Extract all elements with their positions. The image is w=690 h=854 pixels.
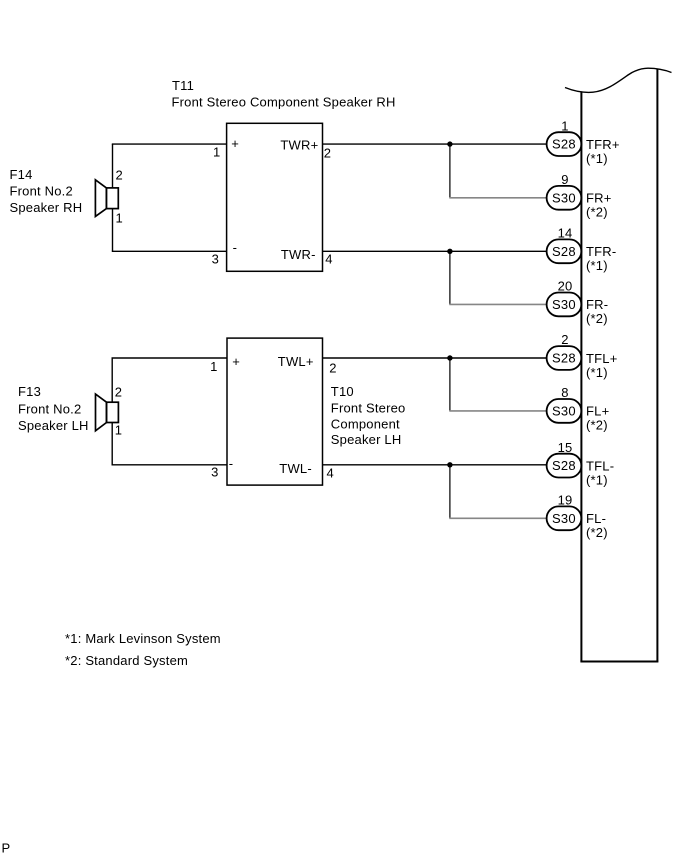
- svg-text:*1: Mark Levinson System: *1: Mark Levinson System: [65, 631, 221, 646]
- pin number 2: [561, 332, 568, 347]
- svg-text:Front Stereo: Front Stereo: [331, 400, 406, 415]
- svg-text:-: -: [229, 456, 234, 471]
- wire harness right edge: [656, 69, 658, 662]
- svg-text:(*1): (*1): [586, 258, 608, 273]
- svg-text:(*2): (*2): [586, 418, 608, 433]
- junction node TWR-: [447, 249, 452, 254]
- net label FL+ (*2): [586, 404, 609, 433]
- svg-text:Front No.2: Front No.2: [10, 184, 73, 199]
- connector S30 pin 19: [547, 506, 582, 530]
- svg-text:9: 9: [561, 172, 568, 187]
- svg-text:S28: S28: [552, 458, 576, 473]
- wire gray to S30 pin8: [449, 410, 547, 412]
- svg-text:Speaker LH: Speaker LH: [18, 418, 89, 433]
- T10 pin 1: [210, 359, 217, 374]
- wire F14 to T11 pin1: [112, 143, 227, 145]
- connector S30 pin 20: [547, 293, 582, 317]
- speaker F14: [95, 180, 118, 217]
- svg-text:Speaker LH: Speaker LH: [331, 432, 402, 447]
- svg-text:FL-: FL-: [586, 511, 606, 526]
- svg-text:1: 1: [213, 144, 220, 159]
- svg-text:P: P: [2, 840, 11, 854]
- svg-text:4: 4: [325, 252, 332, 267]
- pin number 1: [561, 118, 568, 133]
- svg-text:-: -: [233, 240, 238, 255]
- svg-text:1: 1: [115, 423, 122, 438]
- svg-text:(*2): (*2): [586, 311, 608, 326]
- pin number 14: [558, 226, 573, 241]
- T10 TWL- terminal label: [279, 461, 312, 476]
- svg-text:S30: S30: [552, 297, 576, 312]
- speaker F13 pin 1: [115, 423, 122, 438]
- svg-text:(*2): (*2): [586, 525, 608, 540]
- T11 minus terminal: [233, 240, 238, 255]
- svg-text:Component: Component: [331, 417, 400, 432]
- svg-text:Front Stereo Component Speaker: Front Stereo Component Speaker RH: [172, 94, 396, 109]
- svg-text:1: 1: [561, 118, 568, 133]
- T10 TWL+ terminal label: [278, 354, 314, 369]
- pin number 20: [558, 279, 573, 294]
- svg-text:15: 15: [558, 440, 573, 455]
- wire gray to S30 pin9: [449, 197, 547, 199]
- svg-text:(*2): (*2): [586, 205, 608, 220]
- transformer box T11: [227, 123, 323, 271]
- svg-text:FR-: FR-: [586, 297, 608, 312]
- svg-text:Speaker RH: Speaker RH: [10, 200, 83, 215]
- footnote *1: [65, 631, 221, 646]
- transformer box T10: [227, 338, 323, 485]
- wire harness left edge: [580, 91, 582, 661]
- junction node TWR+: [447, 141, 452, 146]
- wire F13 to T10 pin3: [112, 464, 228, 466]
- svg-text:14: 14: [558, 226, 573, 241]
- svg-text:+: +: [231, 136, 239, 151]
- svg-text:3: 3: [212, 251, 219, 266]
- net label TFR+ (*1): [586, 137, 620, 166]
- svg-text:+: +: [232, 354, 240, 369]
- label F13: [18, 384, 89, 433]
- wire T10 pin2 to S28 pin2: [323, 357, 548, 359]
- svg-text:2: 2: [561, 332, 568, 347]
- svg-text:(*1): (*1): [586, 472, 608, 487]
- net label FR- (*2): [586, 297, 608, 326]
- speaker F13 pin 2: [115, 384, 122, 399]
- wire F14 pin1 vertical: [112, 209, 114, 252]
- svg-text:8: 8: [561, 385, 568, 400]
- wire junction drop TWL-: [449, 465, 451, 519]
- svg-text:TWL+: TWL+: [278, 354, 314, 369]
- svg-text:T11: T11: [172, 78, 194, 93]
- speaker F14 pin 2: [116, 167, 123, 182]
- svg-text:S28: S28: [552, 351, 576, 366]
- svg-text:TWR-: TWR-: [281, 247, 316, 262]
- pin number 8: [561, 385, 568, 400]
- net label FL- (*2): [586, 511, 608, 540]
- junction node TWL-: [447, 462, 452, 467]
- net label TFL- (*1): [586, 458, 614, 487]
- svg-text:Front No.2: Front No.2: [18, 401, 81, 416]
- connector S30 pin 9: [547, 186, 582, 210]
- svg-text:(*1): (*1): [586, 365, 608, 380]
- T10 pin 4: [327, 466, 334, 481]
- svg-text:FR+: FR+: [586, 191, 612, 206]
- svg-text:S30: S30: [552, 190, 576, 205]
- pin number 19: [558, 493, 573, 508]
- label T11 header: [172, 78, 396, 109]
- svg-text:TWR+: TWR+: [280, 137, 318, 152]
- net label TFL+ (*1): [586, 351, 618, 380]
- net label FR+ (*2): [586, 191, 612, 220]
- svg-text:2: 2: [116, 167, 123, 182]
- speaker F14 pin 1: [116, 211, 123, 226]
- svg-text:S28: S28: [552, 244, 576, 259]
- svg-text:2: 2: [324, 145, 331, 160]
- connector S28 pin 15: [547, 454, 582, 478]
- svg-text:*2: Standard System: *2: Standard System: [65, 653, 188, 668]
- wire F13 pin2 vertical: [111, 358, 113, 402]
- svg-text:4: 4: [327, 466, 334, 481]
- svg-text:TFL-: TFL-: [586, 458, 614, 473]
- svg-text:2: 2: [115, 384, 122, 399]
- connector S30 pin 8: [547, 399, 582, 423]
- svg-text:TFR+: TFR+: [586, 137, 620, 152]
- svg-text:T10: T10: [331, 384, 354, 399]
- T10 minus terminal: [229, 456, 234, 471]
- T11 plus terminal: [231, 136, 239, 151]
- connector S28 pin 2: [547, 346, 582, 370]
- T10 plus terminal: [232, 354, 240, 369]
- svg-text:FL+: FL+: [586, 404, 609, 419]
- page letter P: [2, 840, 11, 854]
- wire F13 pin1 vertical: [111, 423, 113, 465]
- svg-text:19: 19: [558, 493, 573, 508]
- pin number 15: [558, 440, 573, 455]
- speaker F13: [96, 394, 119, 431]
- svg-text:(*1): (*1): [586, 151, 608, 166]
- wire F14 to T11 pin3: [112, 250, 227, 252]
- connector S28 pin 1: [547, 132, 582, 156]
- wire gray to S30 pin20: [449, 303, 547, 305]
- svg-text:1: 1: [116, 211, 123, 226]
- svg-text:F14: F14: [10, 167, 33, 182]
- svg-text:3: 3: [211, 464, 218, 479]
- net label TFR- (*1): [586, 244, 616, 273]
- wire harness bottom edge: [580, 661, 658, 663]
- svg-text:S30: S30: [552, 403, 576, 418]
- svg-text:TWL-: TWL-: [279, 461, 312, 476]
- T11 pin 2: [324, 145, 331, 160]
- T11 pin 3: [212, 251, 219, 266]
- junction node TWL+: [447, 355, 452, 360]
- footnote *2: [65, 653, 188, 668]
- connector S28 pin 14: [547, 239, 582, 263]
- wire gray to S30 pin19: [449, 517, 547, 519]
- T11 pin 1: [213, 144, 220, 159]
- svg-text:F13: F13: [18, 384, 41, 399]
- wire T10 pin4 to S28 pin15: [323, 464, 548, 466]
- wire T11 pin4 to S28 pin14: [323, 250, 548, 252]
- svg-text:S28: S28: [552, 137, 576, 152]
- pin number 9: [561, 172, 568, 187]
- svg-text:1: 1: [210, 359, 217, 374]
- wire F14 pin2 vertical: [112, 144, 114, 188]
- svg-text:TFL+: TFL+: [586, 351, 618, 366]
- svg-text:S30: S30: [552, 511, 576, 526]
- wire junction drop TWL+: [449, 358, 451, 411]
- label T10 header: [331, 384, 406, 447]
- wire F13 to T10 pin1: [112, 357, 228, 359]
- harness break wave: [565, 68, 672, 92]
- wire T11 pin2 to S28 pin1: [323, 143, 548, 145]
- T11 TWR- terminal label: [281, 247, 316, 262]
- T11 pin 4: [325, 252, 332, 267]
- wire junction drop TWR+: [449, 144, 451, 198]
- svg-text:2: 2: [329, 361, 336, 376]
- T11 TWR+ terminal label: [280, 137, 318, 152]
- T10 pin 3: [211, 464, 218, 479]
- svg-text:20: 20: [558, 279, 573, 294]
- svg-text:TFR-: TFR-: [586, 244, 616, 259]
- wire junction drop TWR-: [449, 251, 451, 304]
- T10 pin 2: [329, 361, 336, 376]
- label F14: [10, 167, 83, 215]
